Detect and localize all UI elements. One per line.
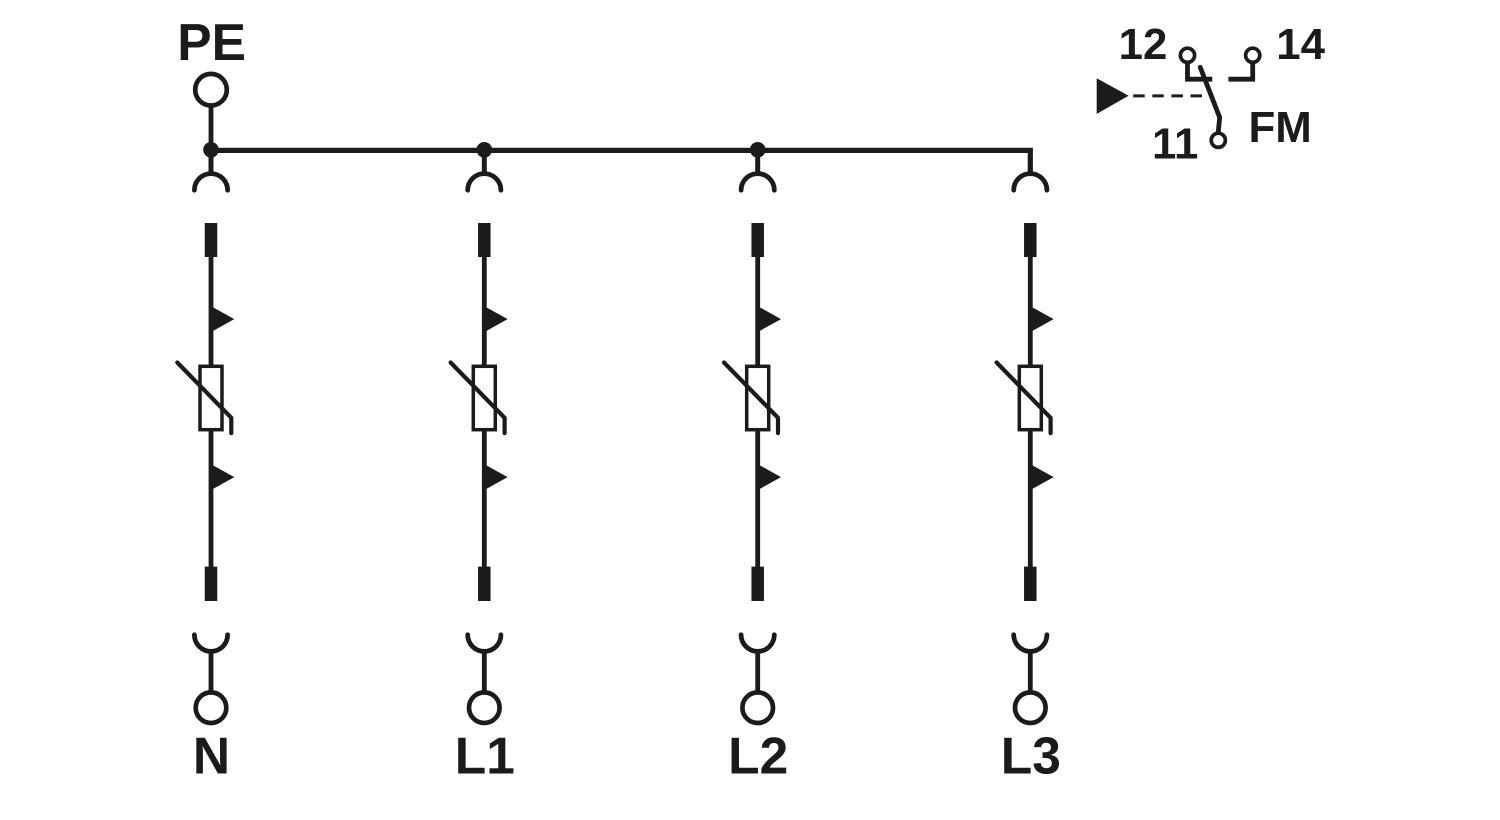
terminal circle L2	[742, 692, 773, 723]
terminal bar, top (N branch)	[205, 223, 218, 257]
terminal bar, bottom (N branch)	[205, 567, 218, 601]
wire: bus drop to plug contact (L1 branch)	[482, 150, 487, 174]
varistor diagonal stroke with tail (L3 branch)	[997, 363, 1051, 434]
plug-in contact arc, terminal side (L2 branch)	[741, 635, 774, 652]
plug-in contact arc, bus side (L3 branch)	[1014, 174, 1047, 191]
contact 11 terminal circle	[1211, 133, 1225, 147]
svg-text:11: 11	[1152, 119, 1198, 168]
varistor diagonal stroke with tail (N branch)	[177, 363, 231, 434]
svg-text:N: N	[193, 727, 230, 785]
dashed mechanical link to changeover contact	[1133, 94, 1206, 97]
changeover switch lever	[1200, 67, 1220, 131]
wire: varistor to bottom bar (N branch)	[209, 430, 214, 567]
varistor body (L2 branch)	[747, 366, 769, 429]
svg-text:12: 12	[1119, 20, 1168, 69]
disconnect indicator arrow, upper (N branch)	[213, 307, 235, 331]
wire: varistor to bottom bar (L1 branch)	[482, 430, 487, 567]
plug-in contact arc, bus side (L1 branch)	[468, 174, 501, 191]
svg-text:14: 14	[1276, 20, 1325, 69]
terminal bar, bottom (L2 branch)	[751, 567, 764, 601]
disconnect indicator arrow, lower (N branch)	[213, 465, 235, 489]
junction node on PE bus (N branch)	[203, 142, 219, 158]
remote signalling arrow (FM)	[1097, 78, 1129, 114]
terminal circle N	[196, 692, 227, 723]
junction node on PE bus (L2 branch)	[750, 142, 766, 158]
wire: bus drop to plug contact (N branch)	[209, 150, 214, 174]
wire: varistor to bottom bar (L2 branch)	[755, 430, 760, 567]
terminal bar, bottom (L3 branch)	[1024, 567, 1037, 601]
wire: socket arc to terminal circle (L1 branch)	[482, 651, 487, 692]
wire: top bar to varistor (L2 branch)	[755, 257, 760, 366]
wire: top bar to varistor (N branch)	[209, 257, 214, 366]
varistor diagonal stroke with tail (L1 branch)	[451, 363, 505, 434]
terminal bar, bottom (L1 branch)	[478, 567, 491, 601]
varistor diagonal stroke with tail (L2 branch)	[724, 363, 778, 434]
plug-in contact arc, bus side (L2 branch)	[741, 174, 774, 191]
disconnect indicator arrow, lower (L2 branch)	[759, 465, 781, 489]
disconnect indicator arrow, lower (L1 branch)	[486, 465, 508, 489]
disconnect indicator arrow, lower (L3 branch)	[1032, 465, 1054, 489]
junction node on PE bus (L1 branch)	[477, 142, 493, 158]
terminal circle L3	[1015, 692, 1046, 723]
disconnect indicator arrow, upper (L3 branch)	[1032, 307, 1054, 331]
terminal bar, top (L2 branch)	[751, 223, 764, 257]
varistor body (L1 branch)	[473, 366, 495, 429]
varistor body (N branch)	[200, 366, 222, 429]
plug-in contact arc, terminal side (N branch)	[194, 635, 227, 652]
contact 14 terminal circle	[1246, 48, 1260, 62]
PE bus wire with corner down to L3 branch	[209, 150, 1031, 174]
wire: bus drop to plug contact (L2 branch)	[755, 150, 760, 174]
contact 14 fixed contact wire	[1228, 62, 1252, 79]
wire: PE terminal to bus	[209, 108, 214, 151]
svg-text:PE: PE	[177, 13, 246, 71]
svg-text:L1: L1	[455, 727, 515, 785]
terminal circle PE	[195, 74, 227, 106]
wire: top bar to varistor (L1 branch)	[482, 257, 487, 366]
terminal bar, top (L1 branch)	[478, 223, 491, 257]
svg-text:L3: L3	[1001, 727, 1061, 785]
terminal circle L1	[469, 692, 500, 723]
terminal bar, top (L3 branch)	[1024, 223, 1037, 257]
varistor body (L3 branch)	[1019, 366, 1041, 429]
disconnect indicator arrow, upper (L2 branch)	[759, 307, 781, 331]
wire: socket arc to terminal circle (L3 branch)	[1028, 651, 1033, 692]
contact 12 terminal circle	[1180, 48, 1194, 62]
plug-in contact arc, bus side (N branch)	[194, 174, 227, 191]
plug-in contact arc, terminal side (L1 branch)	[468, 635, 501, 652]
plug-in contact arc, terminal side (L3 branch)	[1014, 635, 1047, 652]
svg-text:FM: FM	[1248, 103, 1311, 152]
svg-text:L2: L2	[728, 727, 788, 785]
wire: varistor to bottom bar (L3 branch)	[1028, 430, 1033, 567]
wire: top bar to varistor (L3 branch)	[1028, 257, 1033, 366]
wire: socket arc to terminal circle (N branch)	[209, 651, 214, 692]
wire: socket arc to terminal circle (L2 branch)	[755, 651, 760, 692]
contact 12 fixed contact wire	[1188, 62, 1213, 79]
disconnect indicator arrow, upper (L1 branch)	[486, 307, 508, 331]
